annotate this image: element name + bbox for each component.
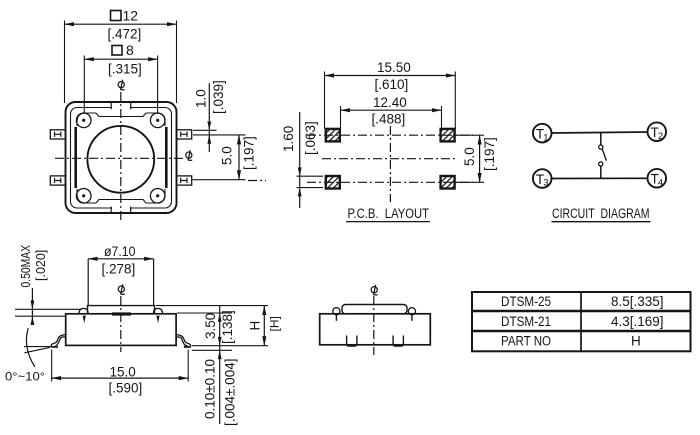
wire T1-T2 bbox=[552, 132, 648, 133]
right ear circle bbox=[408, 308, 415, 321]
svg-text:[.004±.004]: [.004±.004] bbox=[223, 359, 238, 426]
extension line for 5.0 bottom bbox=[193, 179, 246, 181]
svg-text:8.5[.335]: 8.5[.335] bbox=[611, 294, 664, 309]
centerline symbol top bbox=[118, 80, 125, 90]
left leg bbox=[51, 335, 66, 347]
svg-text:[.488]: [.488] bbox=[372, 112, 406, 127]
svg-text:DTSM-21: DTSM-21 bbox=[501, 314, 551, 329]
svg-text:H: H bbox=[248, 321, 263, 331]
terminal T3 bbox=[533, 169, 552, 189]
terminal T4 bbox=[648, 169, 667, 189]
svg-text:[.197]: [.197] bbox=[242, 136, 257, 170]
svg-text:[.472]: [.472] bbox=[108, 27, 142, 42]
vertical centerline side view bbox=[120, 296, 122, 352]
lead top-left bbox=[50, 130, 65, 139]
dimension line 15.50 bbox=[325, 75, 456, 77]
svg-text:1: 1 bbox=[543, 132, 548, 143]
pad top-right bbox=[441, 129, 455, 142]
cover cap bbox=[342, 305, 407, 314]
centerline vertical bbox=[389, 126, 391, 202]
svg-text:12.40: 12.40 bbox=[373, 95, 407, 110]
dimension line 8 bbox=[84, 58, 157, 60]
bottom notch bbox=[111, 206, 131, 213]
left ear bbox=[79, 308, 88, 314]
CIRCUIT DIAGRAM label bbox=[552, 206, 651, 222]
right leg bbox=[176, 335, 191, 347]
body rectangle bbox=[66, 314, 176, 346]
svg-text:1.60: 1.60 bbox=[281, 126, 296, 152]
left leg foot bbox=[51, 346, 58, 348]
terminal T1 bbox=[533, 124, 552, 144]
corner hole bottom-right bbox=[150, 189, 165, 204]
svg-text:CIRCUIT DIAGRAM: CIRCUIT DIAGRAM bbox=[552, 206, 650, 221]
switch body inner outline bbox=[71, 108, 172, 209]
lead bottom-right bbox=[177, 176, 192, 185]
svg-text:0.10±0.10: 0.10±0.10 bbox=[203, 359, 218, 419]
dimension 1.60 extension lines bbox=[297, 176, 324, 187]
dimension 1.0 extension lines bbox=[193, 130, 246, 135]
extension line 3.50 top bbox=[177, 312, 232, 314]
cover plate side thick edges bbox=[74, 127, 77, 188]
extension line leg bottom bbox=[192, 349, 232, 351]
vertical centerline front view bbox=[373, 296, 375, 355]
dimension 5.0 extension lines (pcb) bbox=[456, 135, 484, 182]
extension line left 12.40 bbox=[340, 106, 342, 129]
svg-text:ø7.10: ø7.10 bbox=[104, 244, 136, 259]
lead bottom-left bbox=[50, 176, 65, 185]
svg-text:8: 8 bbox=[126, 42, 134, 58]
svg-text:1.0: 1.0 bbox=[194, 89, 209, 108]
svg-text:[.278]: [.278] bbox=[102, 262, 136, 277]
svg-text:4: 4 bbox=[658, 177, 663, 188]
left crimp tab bbox=[83, 316, 86, 324]
svg-text:[.590]: [.590] bbox=[109, 380, 143, 395]
svg-text:[.039]: [.039] bbox=[211, 80, 226, 114]
svg-text:[.138]: [.138] bbox=[220, 310, 235, 344]
lead top-right bbox=[177, 130, 192, 139]
svg-text:[.315]: [.315] bbox=[108, 62, 142, 77]
centerline symbol front view bbox=[371, 285, 378, 295]
button stem sides bbox=[88, 259, 153, 306]
shared dimension line 3.50 / 0.10 bbox=[218, 306, 222, 424]
table row 3 bbox=[501, 334, 641, 349]
switch lever bbox=[602, 149, 606, 160]
corner hole bottom-left bbox=[76, 189, 91, 204]
switch contact upper bbox=[599, 145, 603, 149]
svg-text:0.50MAX: 0.50MAX bbox=[19, 244, 33, 287]
table row 1 bbox=[501, 294, 664, 309]
extension line left 12 bbox=[64, 21, 66, 104]
svg-text:15.0: 15.0 bbox=[110, 364, 136, 379]
svg-text:15.50: 15.50 bbox=[377, 60, 411, 75]
svg-text:5.0: 5.0 bbox=[462, 147, 477, 166]
dimension line 12 bbox=[65, 23, 177, 25]
vertical centerline bbox=[120, 92, 122, 222]
centerline row 1 bbox=[307, 134, 473, 136]
svg-text:3: 3 bbox=[543, 178, 548, 189]
switch contact lower bbox=[599, 162, 603, 166]
dimension 1.0 line with arrows bbox=[207, 83, 211, 152]
push button circle bbox=[87, 126, 154, 193]
svg-text:H: H bbox=[631, 334, 641, 349]
pad bottom-right bbox=[441, 176, 455, 189]
cover step lines top bbox=[96, 113, 146, 117]
dimension 5.0 line (top view) bbox=[238, 135, 240, 180]
svg-text:4.3[.169]: 4.3[.169] bbox=[611, 314, 664, 329]
angle ray horizontal bbox=[24, 346, 51, 348]
right foot bbox=[393, 336, 403, 347]
dimension 0.50MAX line with arrows bbox=[31, 288, 35, 325]
dimension 5.0 line (pcb) bbox=[479, 135, 481, 182]
cover plate bbox=[88, 306, 155, 314]
centerline symbol right bbox=[186, 150, 193, 160]
extension line H top bbox=[156, 305, 268, 307]
extension line body bottom bbox=[192, 345, 268, 347]
svg-text:[H]: [H] bbox=[268, 316, 282, 331]
svg-text:P.C.B. LAYOUT: P.C.B. LAYOUT bbox=[348, 206, 430, 221]
switch stem bottom bbox=[600, 166, 602, 178]
right crimp tab bbox=[156, 316, 159, 324]
horizontal centerline bbox=[55, 157, 184, 159]
actuator notch bbox=[112, 312, 131, 315]
cover plate contour bbox=[77, 113, 165, 203]
top notch bbox=[111, 103, 131, 110]
short centerline right of lower lead bbox=[248, 180, 266, 182]
left foot bbox=[347, 336, 357, 347]
switch stem top bbox=[600, 132, 602, 145]
dimension line H bbox=[263, 306, 265, 346]
svg-text:[.063]: [.063] bbox=[303, 121, 318, 155]
dimension square-8 bbox=[112, 42, 134, 58]
svg-text:[.610]: [.610] bbox=[375, 77, 409, 92]
corner hole top-left bbox=[76, 113, 91, 128]
svg-text:3.50: 3.50 bbox=[203, 313, 218, 339]
wire T3-T4 bbox=[552, 177, 648, 179]
svg-text:DTSM-25: DTSM-25 bbox=[501, 294, 551, 309]
dimension line 15.0 bbox=[52, 377, 189, 379]
centerline row 2 bbox=[307, 181, 473, 183]
table frame bbox=[472, 292, 691, 351]
right leg foot bbox=[184, 346, 191, 348]
svg-text:[.020]: [.020] bbox=[34, 250, 48, 281]
angle ray sloped bbox=[24, 347, 49, 352]
extension line right 15.50 bbox=[454, 72, 456, 129]
cover step lines bottom bbox=[96, 200, 146, 204]
svg-text:12: 12 bbox=[123, 8, 139, 24]
P.C.B. LAYOUT label bbox=[346, 206, 430, 222]
dimension 1.60 line with arrows bbox=[298, 112, 302, 208]
svg-text:[.197]: [.197] bbox=[482, 137, 497, 171]
extension line right 12.40 bbox=[441, 106, 443, 129]
svg-text:5.0: 5.0 bbox=[220, 146, 235, 165]
dimension line dia 7.10 bbox=[88, 258, 153, 260]
extension line left 15.50 bbox=[324, 72, 326, 129]
dimension 15.0 extension lines bbox=[52, 350, 189, 382]
dimension 0.50MAX extension lines bbox=[15, 309, 80, 316]
table row 2 bbox=[501, 314, 664, 329]
right ear bbox=[153, 308, 162, 314]
switch body outer outline bbox=[66, 102, 177, 213]
dimension line 12.40 bbox=[341, 109, 442, 111]
left ear circle bbox=[333, 308, 340, 321]
centerline symbol side view bbox=[118, 284, 125, 294]
angle arc bbox=[26, 328, 34, 367]
terminal T2 bbox=[648, 122, 667, 142]
pad top-left bbox=[326, 129, 340, 142]
dimension square-12 bbox=[111, 8, 139, 24]
extension line right 8 bbox=[157, 56, 159, 115]
svg-text:2: 2 bbox=[658, 131, 663, 142]
svg-text:PART NO: PART NO bbox=[501, 334, 551, 349]
body rectangle front bbox=[320, 314, 431, 345]
extension line right 12 bbox=[176, 21, 178, 104]
extension line left 8 bbox=[83, 56, 85, 115]
pad bottom-left bbox=[326, 176, 340, 189]
corner hole top-right bbox=[150, 113, 165, 128]
centerline middle bbox=[322, 158, 458, 160]
svg-text:0°~10°: 0°~10° bbox=[5, 370, 45, 384]
